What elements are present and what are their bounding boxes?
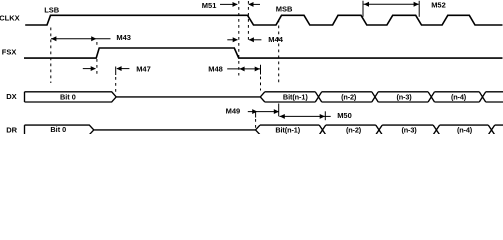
svg-text:MSB: MSB bbox=[276, 5, 293, 14]
svg-text:(n-4): (n-4) bbox=[451, 93, 467, 102]
svg-text:DX: DX bbox=[6, 92, 16, 101]
svg-text:Bit 0: Bit 0 bbox=[60, 93, 76, 102]
svg-text:CLKX: CLKX bbox=[0, 14, 20, 23]
svg-text:M47: M47 bbox=[136, 65, 151, 74]
svg-text:(n-3): (n-3) bbox=[396, 93, 412, 102]
svg-text:M49: M49 bbox=[226, 107, 241, 116]
svg-text:M51: M51 bbox=[202, 1, 217, 10]
svg-text:Bit(n-1): Bit(n-1) bbox=[283, 93, 308, 102]
svg-text:Bit(n-1): Bit(n-1) bbox=[275, 125, 300, 134]
svg-text:M52: M52 bbox=[431, 1, 446, 10]
svg-text:M44: M44 bbox=[268, 35, 283, 44]
svg-text:M43: M43 bbox=[116, 33, 131, 42]
svg-text:Bit 0: Bit 0 bbox=[50, 125, 66, 134]
svg-text:DR: DR bbox=[6, 126, 17, 134]
svg-text:(n-4): (n-4) bbox=[457, 125, 473, 134]
svg-text:(n-3): (n-3) bbox=[401, 125, 417, 134]
svg-text:(n-2): (n-2) bbox=[346, 125, 362, 134]
svg-text:M50: M50 bbox=[337, 111, 352, 120]
svg-text:(n-2): (n-2) bbox=[341, 93, 357, 102]
svg-text:M48: M48 bbox=[208, 65, 223, 74]
svg-text:LSB: LSB bbox=[44, 5, 60, 14]
svg-text:FSX: FSX bbox=[2, 48, 17, 57]
